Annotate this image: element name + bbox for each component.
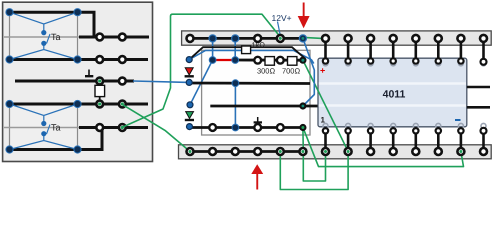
wire (green U-loop rail hole 6 to 7) [303, 152, 325, 182]
wire (green: row4 node down to rail hole) [302, 128, 304, 152]
wire (blue: top rail hole 2 to row1) [212, 38, 214, 60]
wire (blue: row1 left node to LED D2 anode) [190, 60, 213, 105]
ground (left panel) [88, 70, 90, 76]
wire (green: panel row5 terminal up and over to 12V+ hole) [123, 14, 280, 127]
node row4 blue junction [232, 124, 239, 131]
resistor R1 1kOhm with wire [189, 47, 304, 59]
IC pin markers bottom (gray) [323, 123, 486, 128]
panel enclosure [3, 2, 153, 161]
svg-text:4011: 4011 [383, 89, 406, 101]
IC internal separators [319, 82, 466, 84]
row1 resistor terminals [254, 57, 261, 64]
IC pin terminals bottom (black rings) [323, 128, 487, 134]
wire (gray common of Ta2, row 5 y=127.5) [4, 127, 79, 129]
12V+ leader line [278, 22, 281, 35]
wire (red link row1) [213, 59, 236, 61]
node row3 end [299, 102, 306, 109]
LED D1 (red) [185, 68, 193, 75]
wire (blue: panel row3 to LED D1 cathode) [133, 81, 189, 82]
pushbutton Ta1 body [10, 12, 78, 59]
bottom rail holes [187, 148, 488, 155]
wire (row 3, y=81 with ground and lamp) [15, 80, 134, 83]
wire (row 5 black part) [79, 126, 148, 129]
left panel terminal rings [96, 34, 125, 131]
node bottom rail green-marked holes [189, 150, 192, 153]
top rail holes [187, 35, 488, 42]
red arrow (bottom, pointing up) [251, 164, 263, 189]
wire (row3 black) [210, 105, 317, 108]
node top rail blue holes [209, 35, 216, 42]
pushbutton Ta1 actuator [47, 34, 51, 44]
pushbutton Ta2 body [10, 104, 78, 150]
wire (Ta1 top edge to row 1) [10, 12, 150, 37]
wire (row4 black) [190, 126, 303, 129]
red arrow (top, pointing down) [298, 3, 310, 29]
pushbutton Ta2 contact dots [41, 121, 46, 126]
svg-text:300Ω: 300Ω [257, 67, 276, 76]
wire (top rail pin stems to IC) [326, 40, 484, 61]
svg-text:Ta: Ta [51, 123, 61, 133]
ground (middle block) [257, 117, 259, 122]
wire (IC right-side stubs) [467, 86, 490, 89]
wire (gray common of Ta1, row y=37) [4, 36, 79, 38]
node row2 blue junction [232, 80, 239, 87]
wire (Ta2 bottom edge up to row 5) [10, 128, 103, 150]
pushbutton Ta2 contact diagonals [10, 104, 78, 150]
wire (green: panel row4 terminal to bottom rail hole 1) [122, 104, 190, 151]
wire (green: 700ohm node to bottom rail hole) [303, 60, 348, 151]
wire (bottom rail pin stems to IC) [326, 131, 484, 150]
svg-text:+: + [320, 66, 325, 76]
wire (Ta2 top edge, row 4) [10, 103, 149, 106]
wire (Ta1 bottom edge, row 2) [10, 58, 149, 61]
wire (row2 black) [189, 82, 310, 85]
bottom supply rail [179, 145, 492, 159]
wire (green: row4 node long run to rail hole 13) [303, 128, 463, 166]
wire (blue: LED D1 anode along 1k resistor run) [189, 50, 314, 63]
top supply rail [182, 31, 492, 45]
wire (blue: top rail hole 6 down to row3 node) [303, 38, 314, 106]
node row4 end (green) [299, 124, 306, 131]
node 700ohm end (green/black) [299, 57, 306, 64]
resistor R2 300Ohm [265, 57, 274, 66]
LED D2 (green) [186, 112, 194, 119]
pushbutton Ta2 actuator [47, 125, 51, 135]
lamp S1 between row3 and row4 [99, 81, 101, 104]
label - (Vss) [455, 119, 461, 121]
IC pin terminals top (black rings) [323, 58, 487, 65]
row1 junction nodes [209, 57, 216, 64]
IC U1 4011 [318, 58, 467, 127]
pushbutton Ta1 corner pins [6, 9, 81, 64]
node green-marked terminals [98, 79, 101, 82]
resistor R3 700Ohm [288, 57, 297, 66]
wire (blue: top rail hole 3 to row1) [234, 38, 236, 60]
wire (green: top rail hole 6 to hole 7) [304, 37, 325, 38]
wire (bottom rail bus) [190, 150, 303, 153]
wire (top rail V+ bus) [190, 37, 303, 40]
middle terminal block [202, 50, 310, 135]
node top rail hole 6 (blue/green) [299, 35, 306, 42]
svg-text:Ta: Ta [51, 32, 61, 42]
pushbutton Ta2 corner pins [6, 100, 81, 153]
wire (green U-loop rail hole 5 to 8) [280, 152, 348, 190]
IC pin markers top (gray) [323, 61, 486, 66]
pushbutton Ta1 contact diagonals [10, 12, 78, 59]
row4 terminals [209, 124, 216, 131]
wire (blue: row2 node to row4 node) [234, 83, 236, 128]
svg-text:700Ω: 700Ω [282, 67, 301, 76]
node top rail hole 5 green center [279, 37, 282, 40]
pushbutton Ta1 contact dots [41, 30, 46, 35]
svg-text:12V+: 12V+ [272, 13, 292, 23]
wire (row1 black through R2,R3) [235, 59, 303, 62]
